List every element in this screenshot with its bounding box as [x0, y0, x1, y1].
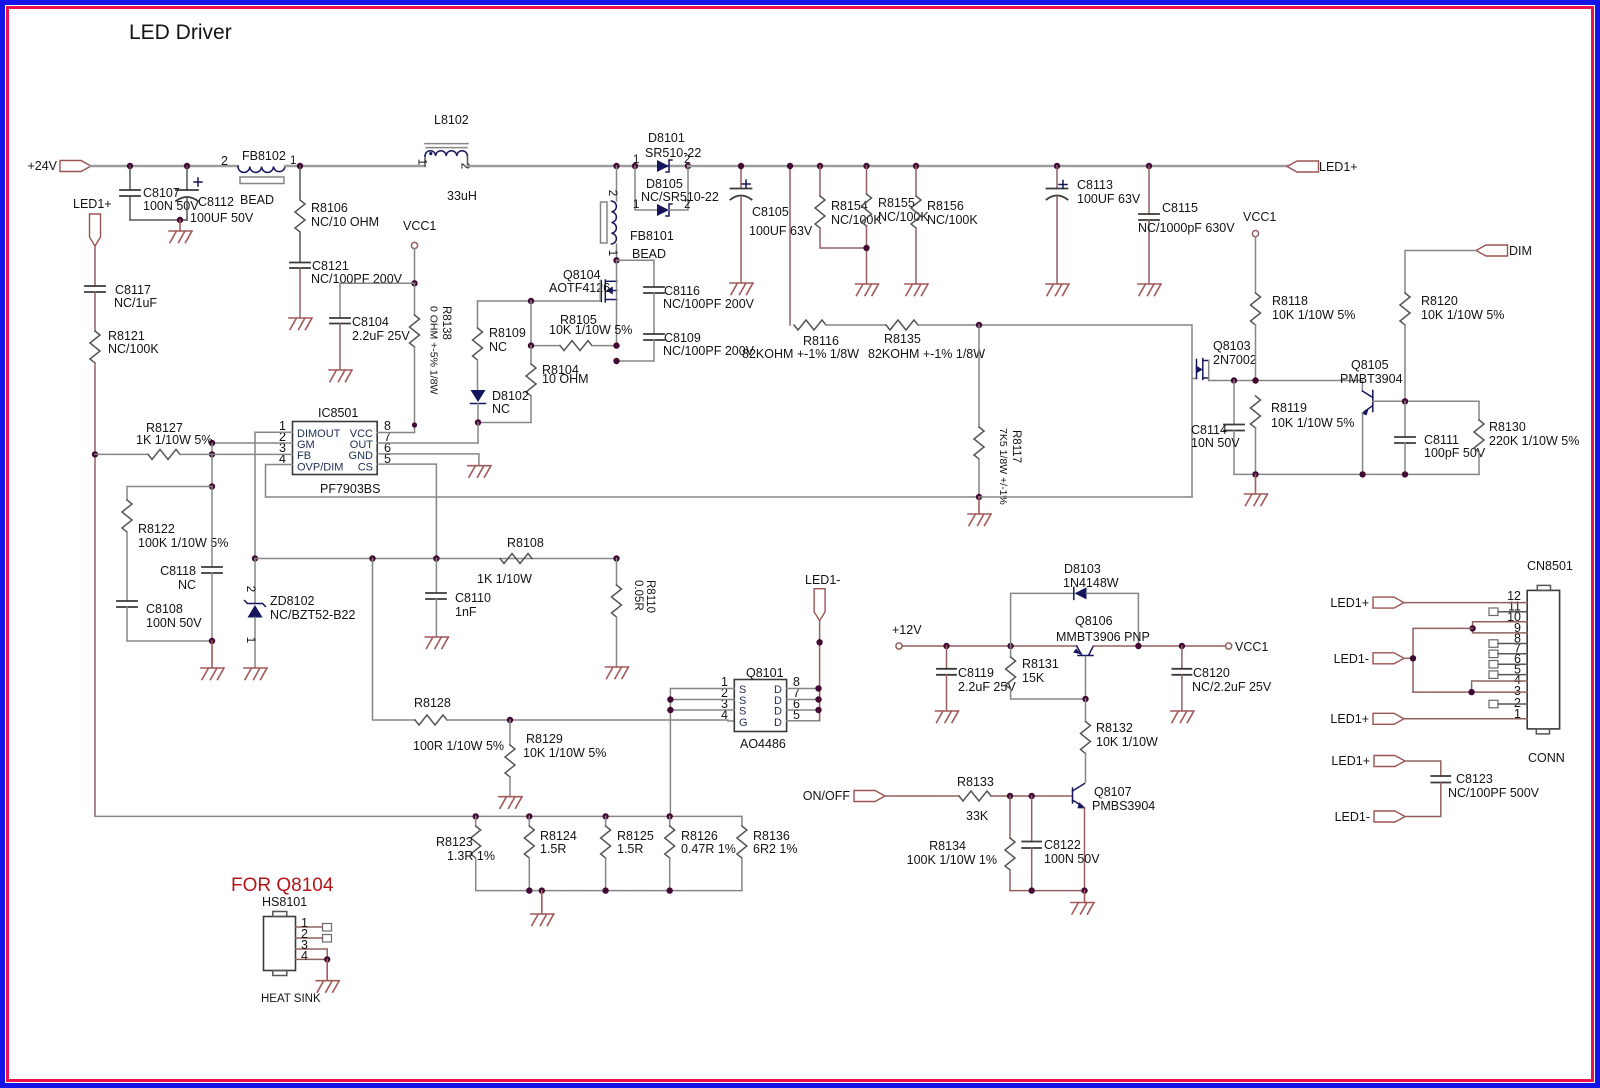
svg-text:R8120: R8120 — [1421, 294, 1458, 308]
pin 8 stub — [1489, 640, 1527, 648]
svg-text:C8119: C8119 — [958, 666, 994, 680]
capacitor C8119 — [937, 646, 1016, 711]
svg-text:ON/OFF: ON/OFF — [803, 789, 851, 803]
svg-text:R8117: R8117 — [1010, 430, 1022, 463]
svg-text:C8113: C8113 — [1077, 178, 1113, 192]
resistor R8129 — [505, 720, 606, 797]
wire column C8118 — [211, 454, 213, 486]
svg-text:R8131: R8131 — [1022, 657, 1059, 671]
node junction C8120 — [1179, 643, 1185, 649]
svg-text:AO4486: AO4486 — [740, 737, 786, 751]
node junction rail R8119 — [1252, 471, 1258, 477]
svg-text:2: 2 — [221, 154, 228, 168]
svg-text:1.3R 1%: 1.3R 1% — [447, 849, 495, 863]
svg-text:LED1+: LED1+ — [1330, 596, 1369, 610]
wire gate rail to Q8103 — [918, 325, 1197, 379]
svg-text:R8124: R8124 — [540, 829, 577, 843]
node junction R8122 top — [209, 483, 215, 489]
svg-text:10 OHM: 10 OHM — [542, 372, 589, 386]
capacitor C8120 — [1172, 646, 1271, 711]
transistor Q8103 2N7002 — [1192, 339, 1257, 497]
connector CN8501 body — [1507, 559, 1573, 734]
svg-text:82KOHM +-1% 1/8W: 82KOHM +-1% 1/8W — [868, 347, 985, 361]
svg-text:R8134: R8134 — [929, 839, 966, 853]
svg-text:C8115: C8115 — [1162, 201, 1198, 215]
svg-text:10N 50V: 10N 50V — [1191, 436, 1240, 450]
svg-text:D8101: D8101 — [648, 131, 685, 145]
diode D8102 NC — [471, 389, 529, 423]
svg-text:1nF: 1nF — [455, 605, 477, 619]
svg-text:R8155: R8155 — [878, 196, 915, 210]
connector LED1+ pin1 — [1330, 712, 1527, 726]
svg-text:C8107: C8107 — [143, 186, 180, 200]
svg-text:R8136: R8136 — [753, 829, 790, 843]
capacitor C8109 — [617, 331, 755, 361]
svg-text:0.05R: 0.05R — [632, 580, 644, 611]
node junction Q8104 drain — [613, 257, 619, 263]
svg-text:0 OHM +-5% 1/8W: 0 OHM +-5% 1/8W — [428, 306, 440, 394]
svg-text:HS8101: HS8101 — [262, 895, 307, 909]
diode D8101 SR510-22 — [633, 131, 701, 172]
svg-text:1K 1/10W: 1K 1/10W — [477, 572, 532, 586]
svg-text:1: 1 — [416, 159, 428, 165]
svg-text:1: 1 — [633, 199, 639, 211]
wire VCC1 branch to C8104 — [340, 283, 415, 318]
svg-text:PF7903BS: PF7903BS — [320, 482, 380, 496]
svg-text:100pF 50V: 100pF 50V — [1424, 446, 1486, 460]
svg-text:CS: CS — [358, 462, 373, 474]
resistor R8154 — [815, 163, 882, 248]
node junction pins 9/10 — [1469, 625, 1475, 631]
resistor R8133 33K — [957, 775, 994, 823]
svg-text:R8138: R8138 — [440, 306, 452, 340]
node junction C8107 — [127, 163, 133, 169]
node junction D8102/OUT — [475, 419, 481, 425]
pin 3 stub — [1413, 691, 1527, 693]
wire Q8101 pin7 stub — [787, 699, 819, 701]
node junction pin2 — [667, 696, 673, 702]
wire Q8101 pin2 stub — [670, 699, 734, 701]
svg-text:C8121: C8121 — [312, 259, 349, 273]
node junction R8124 — [526, 813, 532, 819]
svg-text:C8117: C8117 — [115, 283, 151, 297]
capacitor C8123 — [1405, 772, 1540, 817]
svg-text:BEAD: BEAD — [240, 193, 274, 207]
svg-text:G: G — [739, 717, 748, 729]
svg-text:10K 1/10W 5%: 10K 1/10W 5% — [1421, 308, 1504, 322]
ground under R8129 — [499, 797, 522, 809]
node junction R8131/D8103 — [1007, 643, 1013, 649]
svg-text:D8105: D8105 — [646, 177, 683, 191]
svg-text:C8123: C8123 — [1456, 772, 1493, 786]
svg-text:R8121: R8121 — [108, 329, 145, 343]
node junction R8117 bottom — [976, 494, 982, 500]
wire +12V rail — [902, 645, 1077, 647]
node junction Q8106 base — [1082, 696, 1088, 702]
node junction C8118 bottom — [209, 638, 215, 644]
node junction R8105 left — [528, 298, 534, 304]
inductor L8102 — [416, 113, 477, 203]
node junction LED1- mid — [816, 639, 822, 645]
ground under R8110 — [606, 667, 629, 679]
node junction R8117 top — [976, 322, 982, 328]
svg-text:1.5R: 1.5R — [617, 842, 643, 856]
resistor R8110 0.05R — [612, 559, 657, 668]
svg-text:2: 2 — [606, 190, 618, 196]
svg-text:DIM: DIM — [1509, 244, 1532, 258]
wire pin2 GM stub — [212, 442, 293, 444]
svg-text:NC/100K: NC/100K — [108, 342, 159, 356]
connector LED1+ C8123 — [1331, 754, 1440, 776]
power VCC1 right top — [1243, 210, 1276, 293]
svg-text:FB8102: FB8102 — [242, 149, 286, 163]
node junction pin8 — [815, 685, 821, 691]
svg-text:R8119: R8119 — [1271, 401, 1307, 415]
svg-text:NC/100PF 500V: NC/100PF 500V — [1448, 786, 1540, 800]
ground under Q8107 — [1071, 891, 1094, 914]
node junction VCC1/R8138 — [411, 280, 417, 286]
resistor R8130 — [1474, 401, 1579, 474]
svg-text:10K 1/10W 5%: 10K 1/10W 5% — [523, 746, 606, 760]
node junction R8106 — [297, 163, 303, 169]
capacitor C8122 — [1022, 796, 1100, 891]
resistor R8120 — [1400, 293, 1504, 401]
svg-text:NC/100K: NC/100K — [878, 210, 929, 224]
ground under C8105 — [730, 283, 753, 295]
node junction bottom R8125 — [602, 887, 608, 893]
svg-text:OVP/DIM: OVP/DIM — [297, 462, 343, 474]
wire LED1- column — [819, 621, 821, 721]
transistor Q8105 PMBT3904 — [1340, 358, 1403, 474]
svg-text:D8102: D8102 — [492, 389, 529, 403]
svg-text:C8120: C8120 — [1193, 666, 1230, 680]
resistor R8124 — [524, 816, 577, 890]
svg-text:IC8501: IC8501 — [318, 406, 358, 420]
wire pin4 OVP/DIM loop — [266, 465, 980, 498]
svg-text:LED1+: LED1+ — [1330, 712, 1369, 726]
capacitor C8113 polarized — [1047, 163, 1141, 284]
svg-text:C8118: C8118 — [160, 564, 196, 578]
resistor R8117 7K5 — [974, 325, 1022, 505]
resistor R8126 — [665, 816, 736, 890]
svg-text:10K 1/10W 5%: 10K 1/10W 5% — [549, 323, 632, 337]
node junction C8119 — [943, 643, 949, 649]
node junction pins 3/4 — [1468, 689, 1474, 695]
capacitor C8117 — [85, 283, 157, 310]
node junction R8129 top — [507, 717, 513, 723]
svg-text:CONN: CONN — [1528, 751, 1565, 765]
svg-text:NC/BZT52-B22: NC/BZT52-B22 — [270, 608, 355, 622]
svg-text:+12V: +12V — [892, 623, 922, 637]
capacitor C8110 — [426, 559, 491, 638]
wire bus D8101 to LED1+ right — [688, 165, 1287, 167]
svg-text:100UF 63V: 100UF 63V — [749, 224, 813, 238]
ground under C8115 — [1138, 284, 1161, 296]
node junction pin6 — [815, 707, 821, 713]
svg-text:1: 1 — [633, 154, 639, 166]
svg-text:D8103: D8103 — [1064, 562, 1101, 576]
resistor R8118 — [1251, 293, 1356, 381]
connector DIM — [1405, 244, 1532, 293]
svg-text:NC/10 OHM: NC/10 OHM — [311, 215, 379, 229]
capacitor C8107 — [120, 166, 199, 220]
svg-text:LED1-: LED1- — [1335, 810, 1370, 824]
node ground tap — [177, 217, 183, 223]
svg-text:R8156: R8156 — [927, 199, 964, 213]
wire Q8103 source net — [1209, 380, 1363, 382]
node junction R8134 top — [1007, 793, 1013, 799]
wire pin1 DIMOUT stub — [255, 432, 293, 558]
svg-text:2: 2 — [244, 586, 256, 592]
node junction FB8101 top — [613, 163, 619, 169]
ground under sense rail — [531, 891, 554, 926]
power +12V — [892, 623, 922, 649]
svg-text:C8109: C8109 — [664, 331, 701, 345]
svg-text:VCC1: VCC1 — [1243, 210, 1276, 224]
ground under ZD8102 — [244, 668, 267, 680]
svg-text:FB8101: FB8101 — [630, 229, 674, 243]
svg-text:R8130: R8130 — [1489, 420, 1526, 434]
node junction C8112 — [184, 163, 190, 169]
heat sink HS8101 — [262, 895, 332, 981]
wire LED1+ down to C8117 — [94, 246, 96, 286]
svg-text:LED Driver: LED Driver — [129, 21, 232, 44]
node junction C8122 top — [1029, 793, 1035, 799]
svg-text:FOR Q8104: FOR Q8104 — [231, 875, 334, 896]
ferrite bead FB8102 — [221, 149, 296, 207]
svg-text:R8108: R8108 — [507, 536, 544, 550]
wire sense rail bottom — [476, 890, 742, 892]
resistor R8119 — [1251, 396, 1355, 474]
connector LED1- left — [805, 573, 840, 621]
svg-text:1.5R: 1.5R — [540, 842, 566, 856]
svg-text:100N 50V: 100N 50V — [146, 616, 202, 630]
svg-text:33uH: 33uH — [447, 189, 477, 203]
capacitor C8116 — [644, 284, 755, 334]
node junction C8122 bottom — [1029, 887, 1035, 893]
resistor R8131 15K — [1006, 646, 1086, 699]
wire R8122 top link — [127, 487, 212, 501]
svg-text:7K5 1/8W +/-1%: 7K5 1/8W +/-1% — [997, 428, 1009, 505]
resistor R8135 — [868, 320, 985, 361]
wire pin5 CS stub — [377, 464, 436, 558]
svg-text:MMBT3906 PNP: MMBT3906 PNP — [1056, 630, 1150, 644]
svg-text:SR510-22: SR510-22 — [645, 146, 701, 160]
node junction R8126 — [667, 813, 673, 819]
connector LED1+ right — [1287, 160, 1358, 174]
wire C8116 rail — [617, 260, 655, 287]
svg-text:NC/100PF 200V: NC/100PF 200V — [663, 344, 755, 358]
svg-text:R8125: R8125 — [617, 829, 654, 843]
pin 2 stub — [1489, 700, 1527, 708]
transistor Q8104 AOTF4126 — [549, 260, 617, 345]
node junction C8111 top — [1402, 398, 1408, 404]
svg-text:C8105: C8105 — [752, 205, 789, 219]
svg-text:ZD8102: ZD8102 — [270, 594, 315, 608]
svg-text:R8116: R8116 — [803, 334, 839, 348]
svg-text:R8109: R8109 — [489, 326, 526, 340]
svg-text:82KOHM +-1% 1/8W: 82KOHM +-1% 1/8W — [742, 347, 859, 361]
wire emitter rail — [1234, 473, 1479, 475]
wire GM to FB link — [211, 443, 213, 454]
svg-text:100R 1/10W 5%: 100R 1/10W 5% — [413, 739, 504, 753]
resistor R8105 — [531, 301, 632, 351]
wire C8117 to R8121 — [94, 292, 96, 331]
svg-text:10K 1/10W: 10K 1/10W — [1096, 735, 1158, 749]
resistor R8125 — [601, 816, 654, 890]
resistor R8123 — [436, 816, 495, 890]
wire Q8101 pin8 stub — [787, 688, 819, 690]
ground under R8156 — [905, 284, 928, 296]
svg-text:R8106: R8106 — [311, 201, 348, 215]
resistor R8128 — [413, 696, 504, 753]
wire OUT net down — [477, 423, 479, 444]
svg-text:NC/100PF 200V: NC/100PF 200V — [663, 297, 755, 311]
wire pin7 OUT stub — [377, 442, 478, 444]
node junction Q8107 emitter — [1081, 887, 1087, 893]
ground under C8119 — [936, 711, 959, 723]
ground under emitter rail — [1245, 474, 1268, 505]
svg-text:4: 4 — [301, 949, 308, 963]
svg-text:VCC1: VCC1 — [1235, 640, 1268, 654]
svg-text:Q8101: Q8101 — [746, 666, 784, 680]
node junction GM — [209, 440, 215, 446]
wire top bus left — [91, 165, 238, 167]
svg-text:LED1+: LED1+ — [73, 197, 112, 211]
capacitor C8108 — [117, 601, 212, 641]
wire sense rail top — [95, 815, 742, 817]
svg-text:R8133: R8133 — [957, 775, 994, 789]
node junction R8105 right — [613, 342, 619, 348]
svg-text:0.47R 1%: 0.47R 1% — [681, 842, 736, 856]
svg-text:NC/1000pF 630V: NC/1000pF 630V — [1138, 221, 1235, 235]
svg-text:LED1+: LED1+ — [1319, 160, 1358, 174]
svg-text:C8111: C8111 — [1424, 433, 1459, 447]
connector LED1+ left — [73, 197, 112, 246]
node junction LED1- tap — [1410, 655, 1416, 661]
node junction bottom R8124 — [526, 887, 532, 893]
svg-text:PMBS3904: PMBS3904 — [1092, 799, 1155, 813]
capacitor C8105 polarized — [731, 166, 813, 283]
svg-text:R8123: R8123 — [436, 835, 473, 849]
svg-text:100N 50V: 100N 50V — [1044, 852, 1100, 866]
svg-text:Q8106: Q8106 — [1075, 614, 1113, 628]
node junction R8127 — [92, 451, 98, 457]
capacitor C8118 — [160, 487, 222, 642]
connector LED1- mid — [1334, 652, 1413, 666]
ground under C8118 — [201, 641, 224, 680]
resistor R8108 — [477, 536, 544, 586]
pin 6 stub — [1489, 661, 1527, 669]
svg-text:1K 1/10W 5%: 1K 1/10W 5% — [136, 433, 212, 447]
svg-text:Q8105: Q8105 — [1351, 358, 1389, 372]
svg-text:CN8501: CN8501 — [1527, 559, 1573, 573]
transistor Q8107 PMBS3904 — [1073, 784, 1156, 891]
connector LED1+ pin12 — [1330, 596, 1527, 610]
pin 5 stub — [1489, 671, 1527, 679]
svg-text:C8116: C8116 — [664, 284, 700, 298]
wire rail to R8128 — [373, 559, 416, 721]
wire Q8101 pin5 stub — [787, 720, 819, 722]
ground under C8104 — [329, 370, 352, 382]
node junction rail C8111 — [1402, 471, 1408, 477]
transistor Q8106 MMBT3906 PNP — [1056, 614, 1150, 699]
ground under C8121 — [289, 318, 312, 330]
svg-text:NC: NC — [492, 402, 510, 416]
svg-text:HEAT SINK: HEAT SINK — [261, 993, 321, 1005]
svg-text:Q8104: Q8104 — [563, 268, 601, 282]
pin 11 stub — [1489, 608, 1527, 616]
svg-text:NC: NC — [178, 578, 196, 592]
svg-text:100UF 63V: 100UF 63V — [1077, 192, 1141, 206]
pin 7 stub — [1489, 650, 1527, 658]
ground under C8112 — [169, 220, 192, 243]
ground under C8110 — [425, 637, 448, 649]
resistor R8104 — [478, 342, 589, 422]
svg-text:100K 1/10W 1%: 100K 1/10W 1% — [907, 853, 997, 867]
svg-text:C8112: C8112 — [198, 195, 234, 209]
svg-text:LED1+: LED1+ — [1331, 754, 1370, 768]
wire LED1+ column long — [94, 363, 96, 816]
svg-text:PMBT3904: PMBT3904 — [1340, 372, 1403, 386]
svg-text:33K: 33K — [966, 809, 989, 823]
power VCC1 right — [1226, 640, 1269, 654]
wire Q8101 pin1 stub — [670, 689, 734, 817]
node junction R8116 top — [787, 163, 793, 169]
wire Q8101 pin6 stub — [787, 709, 819, 711]
resistor R8134 — [907, 796, 1015, 891]
wire OVP net to Q8103 gate column — [979, 496, 1192, 498]
wire gate Q8104 — [478, 281, 601, 301]
diode D8105 NC/SR510-22 — [633, 166, 719, 216]
node junction D8101 cathode — [685, 163, 691, 169]
svg-text:R8110: R8110 — [644, 580, 656, 613]
svg-text:1N4148W: 1N4148W — [1063, 576, 1119, 590]
resistor R8127 — [95, 421, 293, 459]
svg-text:R8126: R8126 — [681, 829, 718, 843]
ground under C8113 — [1046, 284, 1069, 296]
node junction R8125 — [602, 813, 608, 819]
pin 9 stub — [1473, 628, 1528, 633]
svg-text:C8122: C8122 — [1044, 838, 1081, 852]
pin 4 stub — [1472, 681, 1528, 692]
resistor R8116 — [742, 320, 859, 361]
diode D8103 1N4148W — [1011, 562, 1139, 646]
svg-text:15K: 15K — [1022, 671, 1045, 685]
svg-text:10K 1/10W 5%: 10K 1/10W 5% — [1272, 308, 1355, 322]
zener ZD8102 NC/BZT52-B22 — [244, 559, 355, 669]
svg-text:BEAD: BEAD — [632, 247, 666, 261]
ground under R8117 — [968, 497, 991, 526]
wire R8116 to R8135 — [826, 324, 886, 326]
svg-text:R8128: R8128 — [414, 696, 451, 710]
capacitor C8114 — [1191, 381, 1244, 475]
node junction R8118/R8119 — [1252, 377, 1258, 383]
resistor R8106 — [295, 166, 379, 262]
node junction rail R8128 branch — [369, 555, 375, 561]
node junction D8105 anode — [632, 163, 638, 169]
svg-text:2N7002: 2N7002 — [1213, 353, 1257, 367]
ground under R8155 — [856, 284, 879, 296]
IC U1 IC8501 PF7903BS — [279, 406, 391, 496]
svg-text:220K 1/10W 5%: 220K 1/10W 5% — [1489, 434, 1579, 448]
node junction pin7 — [815, 696, 821, 702]
svg-text:2.2uF 25V: 2.2uF 25V — [352, 329, 410, 343]
resistor R8121 — [90, 329, 159, 363]
ground under HS8101 — [316, 981, 339, 993]
svg-text:NC/2.2uF 25V: NC/2.2uF 25V — [1192, 680, 1272, 694]
svg-text:Q8107: Q8107 — [1094, 785, 1132, 799]
